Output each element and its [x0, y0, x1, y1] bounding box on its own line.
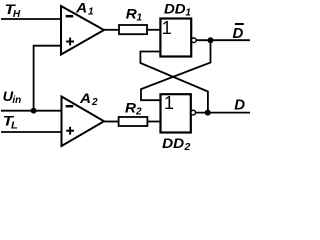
resistor R1 [119, 25, 147, 34]
wire DD2 output to right edge (D net) [196, 112, 250, 114]
svg-text:1: 1 [88, 7, 94, 18]
svg-text:A: A [79, 90, 91, 106]
resistor R2 [119, 117, 148, 126]
svg-text:2: 2 [91, 97, 98, 108]
node junction dot on DD1 output [208, 37, 214, 43]
wire A2 output to resistor R2 [104, 121, 119, 123]
wire resistor R1 to DD1 input [147, 29, 160, 31]
wire feedback from DD1 output node to DD2 upper input [141, 43, 211, 101]
wire T_L input to A2 non-inverting input [1, 131, 62, 133]
wire A1 output to resistor R1 [104, 29, 119, 31]
wire resistor R2 to DD2 input [147, 121, 160, 123]
svg-text:1: 1 [137, 13, 143, 24]
wire from A1 non-inverting input down to U_in node [34, 46, 61, 111]
op-amp A1 [61, 6, 104, 55]
svg-text:D: D [234, 96, 245, 113]
svg-text:1: 1 [185, 8, 191, 19]
logic gate DD2 (NOR, IEC box) [161, 93, 196, 132]
wire feedback from DD2 output node to DD1 lower input [140, 52, 208, 111]
label Dbar output [233, 24, 244, 42]
svg-text:DD: DD [162, 135, 184, 151]
wire U_in input to A2 inverting input [1, 110, 62, 112]
svg-text:1: 1 [162, 18, 172, 38]
svg-text:DD: DD [164, 1, 186, 17]
svg-text:1: 1 [164, 93, 174, 113]
node junction dot on U_in line [31, 108, 37, 114]
svg-text:in: in [12, 95, 21, 106]
svg-text:D: D [233, 25, 244, 42]
logic gate DD1 (NOR, IEC box) [160, 18, 196, 57]
svg-text:2: 2 [184, 141, 191, 152]
node junction dot on DD2 output [205, 110, 211, 116]
wire T_H input to A1 inverting input [1, 18, 61, 20]
svg-text:H: H [13, 9, 21, 20]
wire DD1 output to right edge (Dbar net) [197, 39, 251, 41]
svg-text:2: 2 [135, 107, 142, 118]
svg-text:A: A [75, 0, 87, 16]
op-amp A2 [62, 97, 105, 147]
svg-text:L: L [11, 119, 18, 131]
